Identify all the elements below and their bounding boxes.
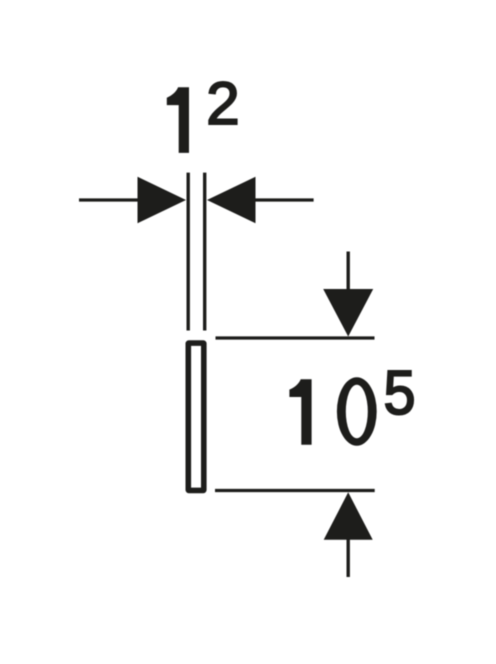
wire: left dimension line segment of width dim [79, 198, 140, 201]
arrowhead pointing up at bottom extension line [324, 492, 373, 540]
wire: upper dimension line segment of height dim [347, 252, 350, 293]
wire: right dimension line segment of width dim [255, 198, 314, 201]
arrowhead pointing right at left extension line [138, 177, 187, 223]
arrowhead pointing down at top extension line [323, 289, 373, 337]
dimension label 1 (value of width dim) [167, 87, 189, 153]
dimension label 10 (value of height dim): digit 1 [289, 379, 311, 445]
extension line top (top of plate, height dim) [216, 336, 375, 339]
extension line B (right face of plate) [203, 173, 206, 331]
plate profile rectangle [188, 343, 204, 490]
wire: lower dimension line segment of height dim [347, 540, 350, 578]
extension line bottom (bottom of plate, height dim) [215, 489, 375, 492]
dimension label 10 (value of height dim): digit 0 [337, 377, 377, 445]
extension line A (left face of plate) [186, 173, 189, 331]
arrowhead pointing left at right extension line [207, 177, 256, 223]
svg-text:5: 5 [384, 358, 416, 427]
svg-text:2: 2 [206, 70, 239, 137]
